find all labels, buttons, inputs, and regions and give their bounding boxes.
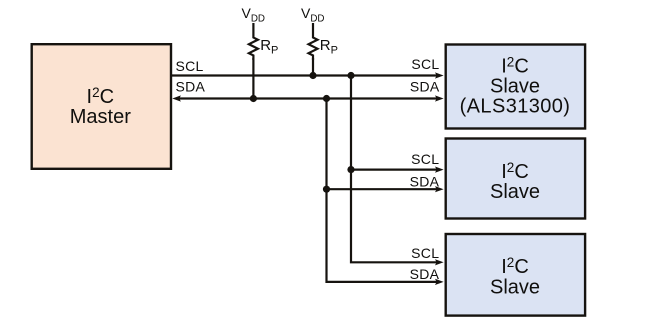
arrowhead SDA into slave 2 bbox=[435, 186, 444, 192]
svg-text:I2C: I2C bbox=[87, 85, 115, 108]
junction dot SDA tap / slave 2 branch bbox=[323, 186, 330, 193]
svg-text:SCL: SCL bbox=[176, 58, 204, 74]
svg-text:SCL: SCL bbox=[411, 56, 439, 72]
net label SDA at master bbox=[176, 78, 206, 94]
svg-text:(ALS31300): (ALS31300) bbox=[460, 96, 571, 118]
svg-text:SDA: SDA bbox=[410, 79, 440, 95]
I2C Slave block 2 bbox=[446, 139, 585, 219]
svg-text:I2C: I2C bbox=[501, 255, 529, 278]
wire: RP1 leg down to SDA bus bbox=[252, 58, 254, 99]
arrowhead SDA into slave 3 bbox=[435, 279, 444, 285]
svg-text:VDD: VDD bbox=[301, 5, 325, 25]
junction dot RP2 / SCL bbox=[309, 72, 316, 79]
arrowhead SDA into slave 1 bbox=[435, 95, 444, 101]
svg-text:SDA: SDA bbox=[410, 266, 440, 282]
svg-text:RP: RP bbox=[260, 37, 278, 57]
net label SCL at slave 2 bbox=[411, 151, 439, 167]
resistor RP 2 (SCL pull-up) bbox=[309, 23, 338, 60]
junction dot SDA bus / SDA tap bbox=[323, 95, 330, 102]
wire: SDA tap vertical down to slave 3 row bbox=[327, 99, 438, 282]
svg-text:SDA: SDA bbox=[176, 78, 206, 94]
wire SDA branch to slave 2 bbox=[327, 188, 438, 190]
I2C Slave (ALS31300) block U1 bbox=[446, 45, 585, 129]
net label SDA at slave 2 bbox=[410, 173, 440, 189]
wire: RP2 leg down to SCL bus bbox=[312, 58, 314, 76]
wire SDA bus (master to slave 1) bbox=[178, 97, 437, 99]
VDD supply label 2 bbox=[301, 5, 325, 25]
svg-text:SCL: SCL bbox=[411, 151, 439, 167]
arrowhead SCL into slave 3 bbox=[435, 259, 444, 265]
svg-text:I2C: I2C bbox=[501, 55, 529, 78]
junction dot SCL bus / SCL tap bbox=[347, 72, 354, 79]
net label SCL at slave 3 bbox=[411, 245, 439, 261]
arrowhead SDA into master bbox=[172, 95, 181, 101]
svg-text:Master: Master bbox=[70, 106, 131, 128]
I2C Slave block 3 bbox=[446, 234, 585, 316]
svg-text:SDA: SDA bbox=[410, 173, 440, 189]
wire SCL branch to slave 2 bbox=[351, 169, 437, 171]
svg-text:SCL: SCL bbox=[411, 245, 439, 261]
junction dot SCL tap / slave 2 branch bbox=[347, 166, 354, 173]
resistor RP 1 (SDA pull-up) bbox=[249, 23, 278, 60]
wire SCL bus (master to slave 1) bbox=[171, 74, 437, 76]
svg-text:I2C: I2C bbox=[501, 160, 529, 183]
svg-text:VDD: VDD bbox=[242, 5, 266, 25]
net label SDA at slave 3 bbox=[410, 266, 440, 282]
net label SCL at slave 1 bbox=[411, 56, 439, 72]
arrowhead SCL into slave 2 bbox=[435, 167, 444, 173]
arrowhead SCL into slave 1 bbox=[435, 72, 444, 78]
wire: SCL tap vertical down to slave 3 row bbox=[351, 76, 437, 263]
svg-text:Slave: Slave bbox=[490, 276, 540, 298]
svg-text:Slave: Slave bbox=[490, 76, 540, 98]
net label SCL at master bbox=[176, 58, 204, 74]
net label SDA at slave 1 bbox=[410, 79, 440, 95]
VDD supply label 1 bbox=[242, 5, 266, 25]
svg-text:Slave: Slave bbox=[490, 181, 540, 203]
svg-text:RP: RP bbox=[320, 37, 338, 57]
I2C Master block bbox=[32, 44, 171, 169]
junction dot RP1 / SDA bbox=[250, 95, 257, 102]
